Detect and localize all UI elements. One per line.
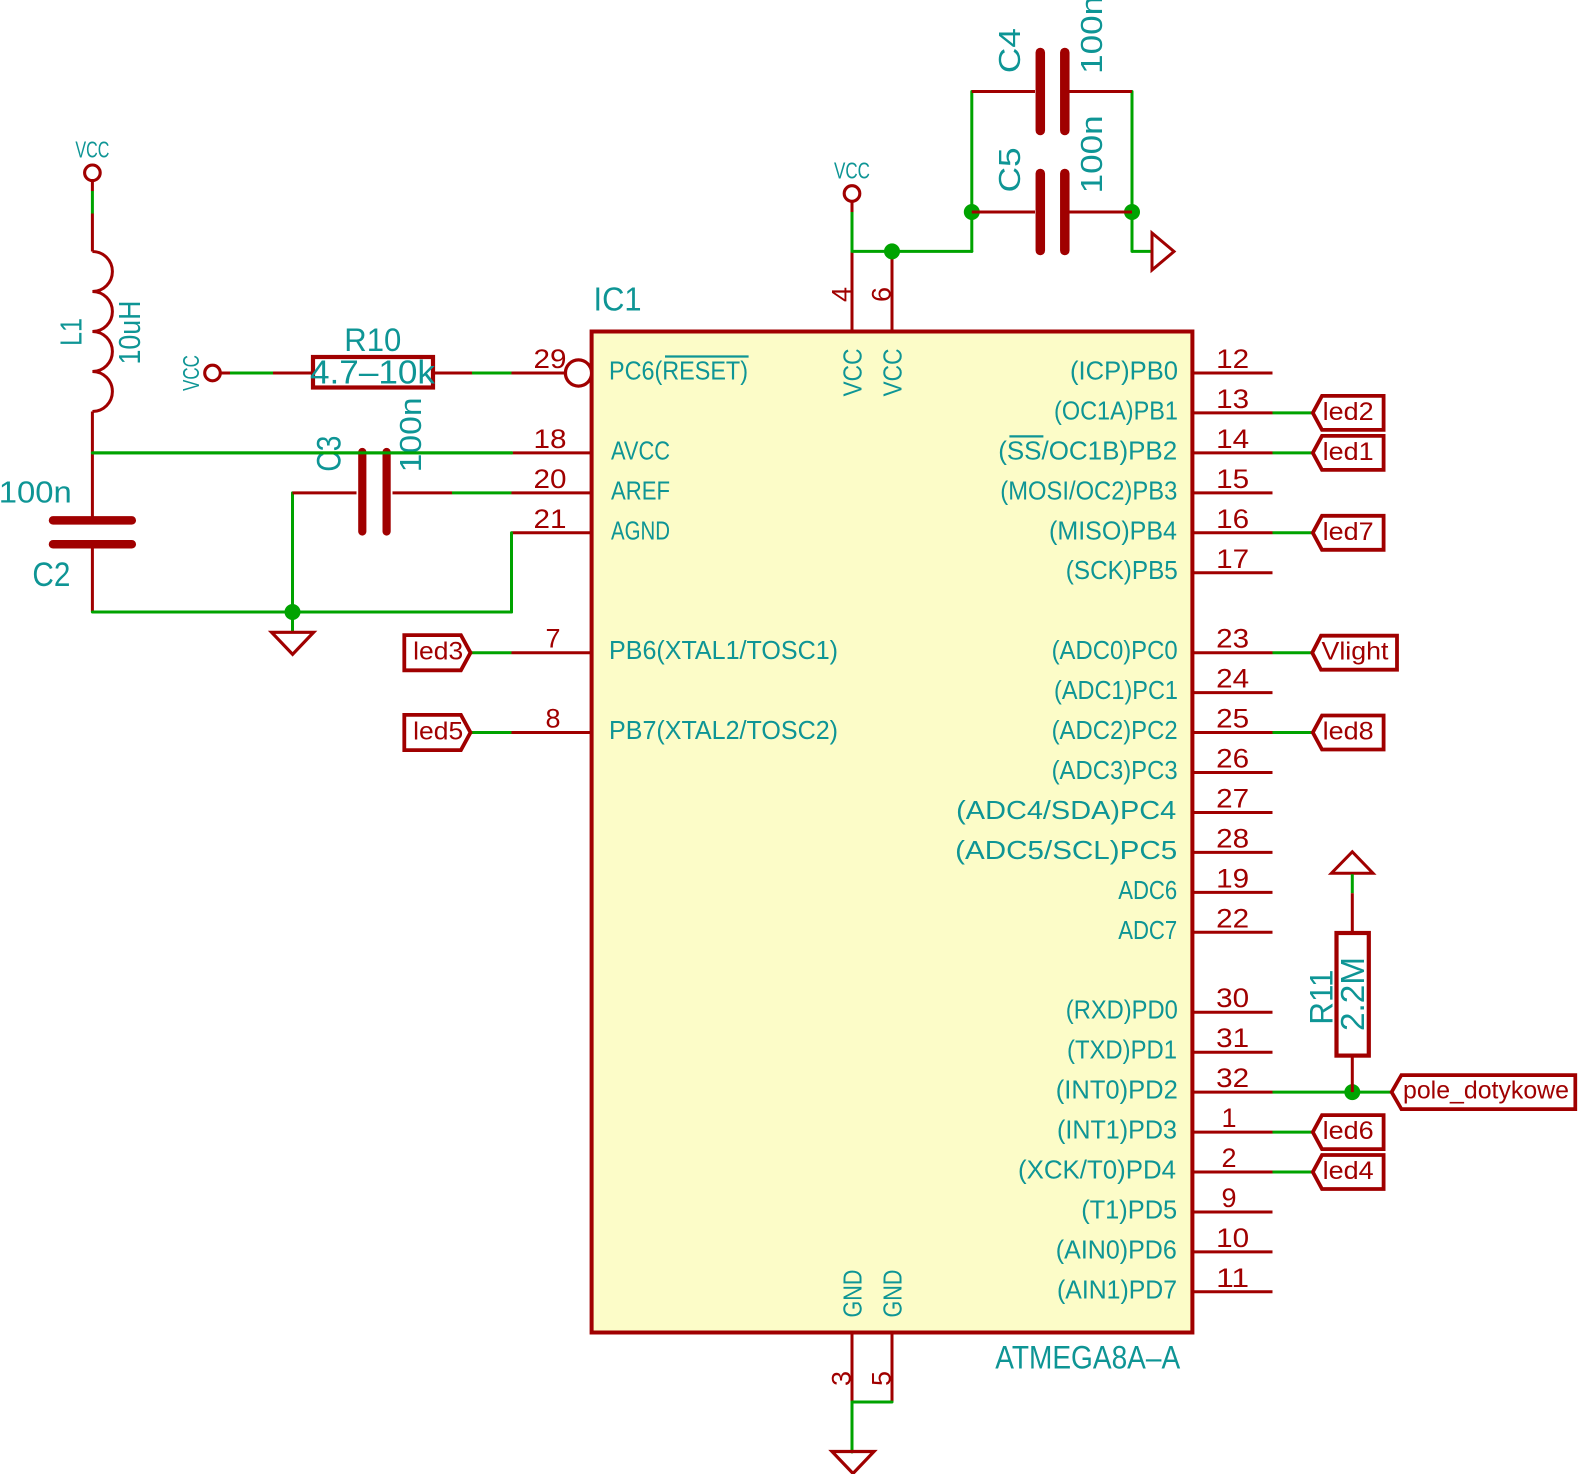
svg-text:27: 27 (1216, 784, 1249, 814)
svg-text:18: 18 (534, 424, 567, 454)
svg-text:IC1: IC1 (594, 280, 642, 317)
svg-text:PC6(RESET): PC6(RESET) (609, 356, 748, 386)
svg-text:31: 31 (1216, 1023, 1249, 1053)
svg-text:28: 28 (1216, 823, 1249, 853)
svg-text:(ADC1)PC1: (ADC1)PC1 (1054, 675, 1178, 705)
svg-text:5: 5 (867, 1371, 897, 1386)
svg-text:30: 30 (1216, 983, 1249, 1013)
svg-text:8: 8 (545, 704, 560, 734)
svg-text:C4: C4 (992, 28, 1027, 73)
svg-text:2.2M: 2.2M (1335, 957, 1372, 1031)
svg-text:(RXD)PD0: (RXD)PD0 (1066, 995, 1178, 1025)
svg-text:VCC: VCC (878, 349, 908, 397)
svg-text:ATMEGA8A–A: ATMEGA8A–A (995, 1340, 1181, 1376)
svg-text:12: 12 (1216, 344, 1249, 374)
svg-text:(XCK/T0)PD4: (XCK/T0)PD4 (1018, 1155, 1176, 1185)
svg-text:(ADC5/SCL)PC5: (ADC5/SCL)PC5 (955, 835, 1177, 865)
svg-text:VCC: VCC (834, 158, 870, 184)
svg-text:17: 17 (1216, 544, 1249, 574)
svg-text:(OC1A)PB1: (OC1A)PB1 (1054, 395, 1178, 425)
svg-text:1: 1 (1221, 1103, 1236, 1133)
svg-text:C2: C2 (32, 556, 70, 594)
svg-text:6: 6 (867, 287, 897, 302)
svg-text:100n: 100n (0, 475, 72, 510)
svg-text:(TXD)PD1: (TXD)PD1 (1067, 1035, 1177, 1065)
svg-text:(SCK)PB5: (SCK)PB5 (1066, 555, 1178, 585)
svg-text:2: 2 (1221, 1143, 1236, 1173)
svg-text:(T1)PD5: (T1)PD5 (1081, 1195, 1177, 1225)
svg-text:GND: GND (878, 1270, 908, 1318)
svg-text:4.7–10k: 4.7–10k (310, 353, 436, 390)
svg-text:20: 20 (534, 464, 567, 494)
svg-text:ADC6: ADC6 (1118, 875, 1177, 905)
svg-text:pole_dotykowe: pole_dotykowe (1403, 1077, 1569, 1105)
svg-text:VCC: VCC (838, 349, 868, 397)
svg-text:11: 11 (1216, 1263, 1249, 1293)
svg-text:3: 3 (827, 1371, 857, 1386)
svg-text:9: 9 (1221, 1183, 1236, 1213)
svg-text:(AIN0)PD6: (AIN0)PD6 (1056, 1234, 1177, 1264)
svg-text:AVCC: AVCC (611, 435, 670, 465)
svg-text:10: 10 (1216, 1223, 1249, 1253)
svg-text:led4: led4 (1323, 1157, 1374, 1185)
svg-text:14: 14 (1216, 424, 1249, 454)
svg-text:32: 32 (1216, 1063, 1249, 1093)
svg-text:led2: led2 (1323, 398, 1374, 426)
svg-text:(ADC3)PC3: (ADC3)PC3 (1052, 755, 1178, 785)
svg-text:29: 29 (534, 344, 567, 374)
svg-text:led8: led8 (1323, 718, 1374, 746)
svg-text:L1: L1 (54, 318, 89, 346)
svg-text:PB6(XTAL1/TOSC1): PB6(XTAL1/TOSC1) (609, 635, 838, 665)
svg-text:C5: C5 (992, 147, 1027, 192)
svg-text:23: 23 (1216, 624, 1249, 654)
svg-text:26: 26 (1216, 744, 1249, 774)
svg-text:AREF: AREF (611, 475, 670, 505)
svg-text:led5: led5 (413, 717, 463, 745)
svg-text:100n: 100n (393, 397, 428, 472)
svg-text:7: 7 (545, 624, 560, 654)
svg-text:16: 16 (1216, 504, 1249, 534)
svg-text:led1: led1 (1323, 438, 1374, 466)
svg-text:GND: GND (838, 1270, 868, 1318)
svg-text:Vlight: Vlight (1322, 638, 1389, 666)
svg-text:led7: led7 (1323, 518, 1374, 546)
svg-text:(ADC4/SDA)PC4: (ADC4/SDA)PC4 (956, 795, 1176, 825)
svg-text:100n: 100n (1074, 0, 1109, 74)
svg-text:(SS/OC1B)PB2: (SS/OC1B)PB2 (998, 435, 1177, 465)
svg-text:(ADC2)PC2: (ADC2)PC2 (1052, 715, 1178, 745)
svg-text:100n: 100n (1074, 115, 1109, 193)
svg-text:22: 22 (1216, 903, 1249, 933)
svg-text:13: 13 (1216, 384, 1249, 414)
svg-text:(INT1)PD3: (INT1)PD3 (1057, 1115, 1177, 1145)
svg-text:21: 21 (534, 504, 567, 534)
svg-text:PB7(XTAL2/TOSC2): PB7(XTAL2/TOSC2) (609, 715, 838, 745)
svg-text:VCC: VCC (75, 137, 109, 163)
svg-text:24: 24 (1216, 664, 1249, 694)
svg-text:led6: led6 (1323, 1117, 1374, 1145)
svg-text:led3: led3 (413, 638, 463, 666)
svg-text:4: 4 (827, 287, 857, 302)
svg-text:10uH: 10uH (112, 301, 147, 365)
svg-text:(MOSI/OC2)PB3: (MOSI/OC2)PB3 (1000, 475, 1177, 505)
svg-text:VCC: VCC (178, 355, 204, 391)
svg-text:25: 25 (1216, 704, 1249, 734)
svg-text:ADC7: ADC7 (1118, 915, 1177, 945)
svg-text:AGND: AGND (611, 515, 670, 545)
svg-text:(ICP)PB0: (ICP)PB0 (1070, 356, 1178, 386)
svg-text:15: 15 (1216, 464, 1249, 494)
svg-text:(MISO)PB4: (MISO)PB4 (1049, 515, 1177, 545)
svg-text:(INT0)PD2: (INT0)PD2 (1056, 1075, 1178, 1105)
svg-text:(ADC0)PC0: (ADC0)PC0 (1052, 635, 1178, 665)
svg-text:(AIN1)PD7: (AIN1)PD7 (1057, 1274, 1177, 1304)
svg-text:19: 19 (1216, 863, 1249, 893)
